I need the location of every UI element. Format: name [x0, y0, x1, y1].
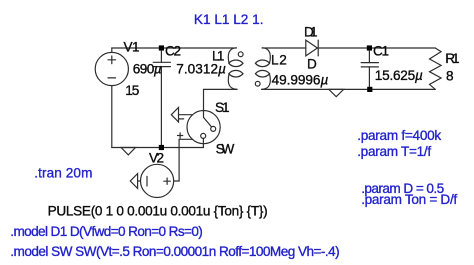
node: diode/C1 top junction	[367, 45, 372, 50]
svg-text:L2: L2	[271, 53, 287, 68]
wire bottom-right rail	[262, 88, 436, 90]
svg-text:690µ: 690µ	[133, 61, 162, 76]
diode D1	[306, 40, 318, 56]
ground (S1 control minus)	[171, 108, 178, 122]
svg-text:49.9996µ: 49.9996µ	[272, 72, 329, 87]
svg-text:.param T=1/f: .param T=1/f	[357, 144, 431, 159]
inductor L1 (primary winding)	[228, 48, 243, 90]
switch S1	[178, 111, 221, 148]
capacitor C1	[361, 48, 378, 89]
svg-text:.param f=400k: .param f=400k	[357, 128, 441, 143]
svg-text:V2: V2	[149, 150, 164, 165]
svg-text:S1: S1	[215, 100, 230, 115]
ground (bottom-left)	[121, 148, 135, 155]
svg-text:C2: C2	[165, 43, 181, 58]
svg-text:.tran 20m: .tran 20m	[34, 165, 92, 180]
node: C2 bottom junction	[159, 145, 164, 150]
svg-text:D1: D1	[304, 25, 318, 40]
svg-text:.model SW SW(Vt=.5 Ron=0.00001: .model SW SW(Vt=.5 Ron=0.00001n Roff=100…	[10, 244, 339, 259]
svg-text:C1: C1	[373, 43, 389, 58]
svg-text:SW: SW	[216, 142, 235, 157]
ground (bottom-right)	[329, 89, 344, 96]
ground (V2 minus)	[130, 174, 137, 189]
voltage source V1	[95, 48, 128, 148]
node: C1 bottom junction	[367, 87, 372, 92]
wire bottom-left rail	[112, 147, 204, 149]
svg-text:K1 L1 L2 1.: K1 L1 L2 1.	[194, 12, 264, 27]
svg-text:15: 15	[125, 83, 139, 98]
wire L2 top to diode	[262, 47, 306, 49]
svg-text:.param Ton = D/f: .param Ton = D/f	[361, 192, 457, 207]
wire diode to R1 top	[318, 47, 435, 49]
svg-text:7.0312µ: 7.0312µ	[176, 61, 226, 76]
svg-text:8: 8	[446, 68, 454, 83]
inductor L2 (secondary winding)	[255, 48, 270, 90]
voltage source V2	[138, 164, 174, 197]
resistor R1	[430, 48, 442, 89]
capacitor C2	[153, 48, 170, 148]
node: V1/C2 top junction	[159, 45, 164, 50]
svg-text:PULSE(0 1 0 0.001u 0.001u {Ton: PULSE(0 1 0 0.001u 0.001u {Ton} {T})	[48, 204, 268, 219]
wire S1 minus pin	[179, 114, 193, 116]
svg-text:15.625µ: 15.625µ	[375, 68, 423, 83]
wire L1 bottom to switch	[204, 89, 238, 117]
wire S1 plus pin to V2 plus	[174, 139, 193, 181]
svg-text:V1: V1	[124, 40, 140, 55]
svg-text:.model D1 D(Vfwd=0 Ron=0 Rs=0): .model D1 D(Vfwd=0 Ron=0 Rs=0)	[10, 224, 203, 239]
wire top-left rail	[112, 47, 236, 49]
svg-text:R1: R1	[445, 51, 459, 66]
svg-text:D: D	[307, 56, 317, 71]
